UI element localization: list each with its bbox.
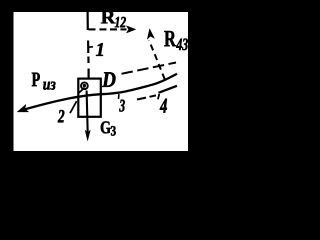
force R43 dashed arrow (up, steep): [149, 41, 165, 80]
arrowhead of G3: [85, 130, 90, 140]
pin joint center dot: [83, 84, 86, 87]
tick on link 1 near label 1: [88, 46, 93, 48]
label R43: [164, 31, 176, 46]
white scanned figure area: [14, 12, 189, 151]
tick at joint of link 4: [158, 94, 159, 99]
arrowhead of P_iz: [17, 105, 28, 112]
black page background: [0, 0, 219, 165]
force R12 dashed arrow (horizontal): [89, 28, 127, 30]
label P_iz: [32, 73, 40, 87]
label D: [102, 72, 116, 87]
label 4: [160, 99, 167, 113]
label 1: [96, 43, 103, 56]
label R12: [101, 11, 116, 24]
label 3: [119, 100, 124, 112]
tick above label 3: [118, 94, 120, 99]
rod link 3 through slider, collinear with P_iz force line (slightly bowed scan): [23, 74, 178, 110]
slider block D (link 2): [78, 79, 101, 117]
arrowhead of R43: [147, 29, 154, 39]
link 1 (dashed vertical line, second position): [88, 12, 89, 79]
pin joint circle at D: [81, 82, 88, 89]
stub linking pin to force line: [79, 88, 85, 94]
link 4 solid segment: [159, 86, 178, 93]
arrowhead of R12: [127, 26, 136, 33]
dashed second position of link 4 (upper): [122, 63, 177, 74]
link 4 lower segment: dashes: [137, 95, 156, 99]
leader tick from label 2 to rod: [70, 101, 77, 113]
label G3: [101, 121, 111, 133]
weight G3 arrow (down): [87, 91, 88, 134]
label 2: [58, 110, 65, 122]
